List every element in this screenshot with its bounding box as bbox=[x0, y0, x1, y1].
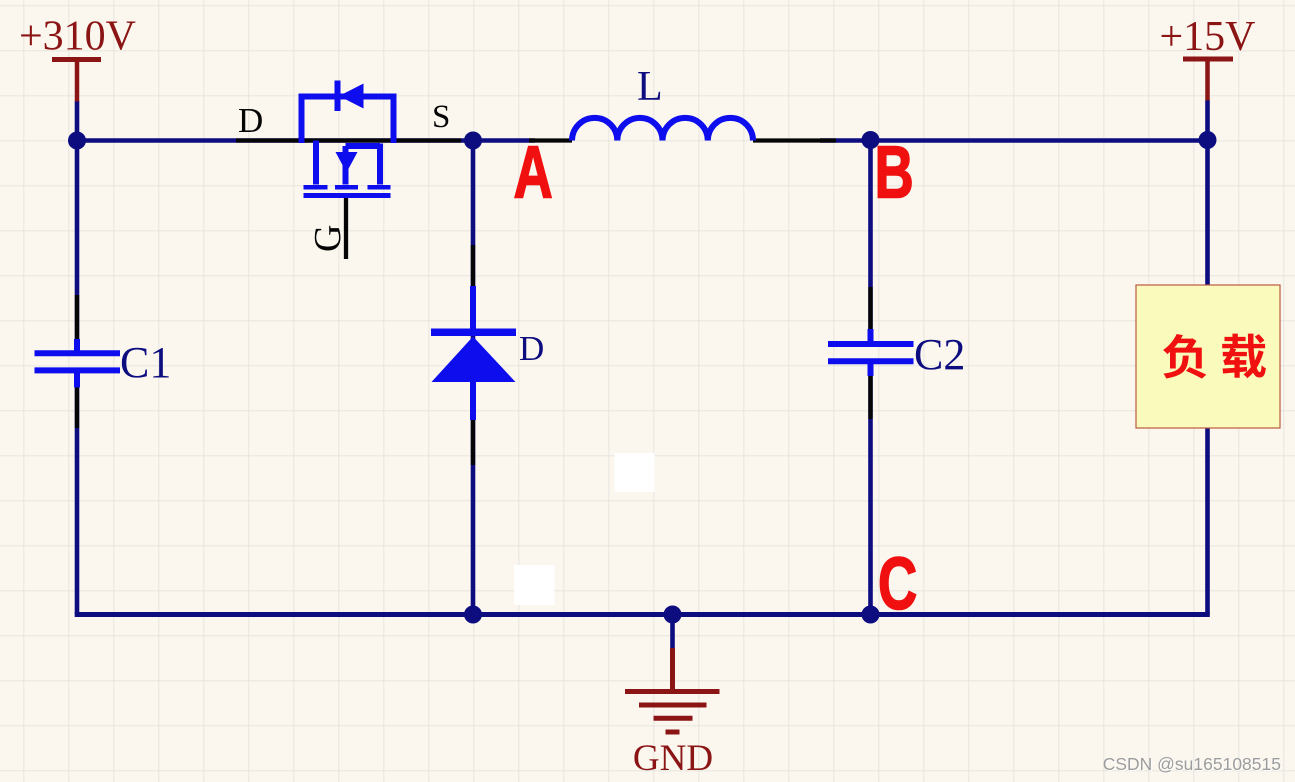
svg-text:C2: C2 bbox=[914, 330, 965, 379]
svg-text:D: D bbox=[519, 329, 544, 368]
svg-text:C1: C1 bbox=[120, 338, 171, 387]
svg-text:C: C bbox=[878, 542, 917, 625]
svg-text:B: B bbox=[875, 130, 914, 213]
svg-text:GND: GND bbox=[633, 738, 713, 779]
svg-text:G: G bbox=[307, 225, 349, 252]
svg-text:+15V: +15V bbox=[1159, 14, 1255, 60]
svg-text:S: S bbox=[432, 99, 450, 135]
svg-text:L: L bbox=[637, 64, 663, 110]
svg-text:D: D bbox=[238, 101, 263, 140]
svg-text:A: A bbox=[514, 130, 553, 213]
svg-text:+310V: +310V bbox=[19, 14, 136, 60]
svg-text:CSDN @su165108515: CSDN @su165108515 bbox=[1103, 754, 1281, 774]
